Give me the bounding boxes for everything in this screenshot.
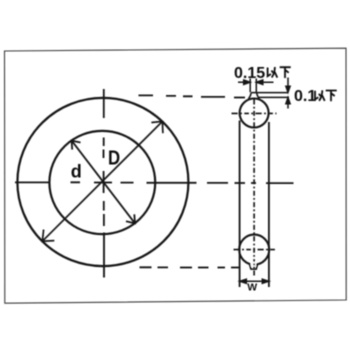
circle top reference line (259, 96, 290, 98)
flash bump on top circle (249, 93, 260, 99)
svg-text:d: d (71, 161, 82, 181)
dimension 0.15 width lines and arrows (238, 79, 274, 93)
svg-text:0.1: 0.1 (294, 88, 316, 105)
arc break under bottom bump (251, 262, 257, 267)
border frame (5, 48, 347, 303)
section bottom circle (cross-section W) (239, 235, 269, 265)
top circle horizontal centerline (232, 112, 277, 114)
dimension arrow D (outer diameter, diagonal) (42, 121, 162, 241)
section vertical centerline (dash-dot) (253, 100, 255, 278)
flash top reference line (251, 92, 289, 94)
flash bump on bottom circle (249, 264, 257, 269)
kanji 以 (0.15) (268, 67, 278, 78)
horizontal centerline of circles (15, 181, 294, 184)
0.1 height arrows (286, 78, 290, 109)
section left tangent line (239, 121, 241, 288)
section top circle (cross-section W) (240, 99, 269, 128)
vertical centerline of circles (103, 89, 106, 278)
kanji 下 (0.15) (280, 67, 291, 78)
dimension W arrows (240, 279, 269, 283)
top projection dashed line (139, 95, 246, 97)
svg-text:0.15: 0.15 (234, 65, 265, 82)
bottom circle horizontal centerline (234, 249, 276, 251)
svg-text:W: W (247, 282, 257, 294)
outer circle (O-ring OD) (17, 98, 188, 266)
kanji 以 (0.1) (315, 90, 325, 101)
inner circle (O-ring ID) (49, 131, 155, 234)
section right tangent line (268, 122, 270, 287)
centerline dot inside bump (253, 263, 255, 265)
bottom projection dashed line (140, 266, 240, 268)
kanji 下 (0.1) (326, 91, 337, 102)
svg-text:D: D (108, 146, 120, 169)
dimension arrow d (inner diameter, diagonal) (72, 141, 135, 224)
